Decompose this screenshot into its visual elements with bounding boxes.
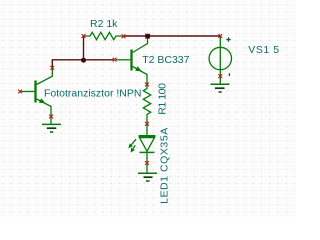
ground under phototransistor: [42, 117, 61, 132]
svg-text:Fototranzisztor !NPN: Fototranzisztor !NPN: [44, 88, 141, 100]
pin VS1 minus to ground: [218, 74, 222, 78]
pin R2 right: [122, 34, 126, 38]
pin T2 base: [113, 58, 117, 62]
svg-text:R1 100: R1 100: [157, 83, 169, 115]
pin VS1 plus: [218, 34, 222, 38]
svg-text:R2 1k: R2 1k: [90, 18, 118, 30]
voltage source VS1: [209, 37, 231, 81]
pin LED cathode to ground: [145, 161, 149, 165]
transistor T2: [116, 36, 148, 84]
ground under LED: [138, 164, 157, 182]
pin T2 emitter to R1: [145, 83, 149, 87]
wire horizontal base net from phototransistor collector corner to T2 base: [52, 60, 113, 68]
wire top horizontal from R2 to VS1: [124, 35, 220, 37]
pin phototransistor collector: [50, 66, 54, 70]
pin marks (red x crosses): [18, 34, 222, 165]
wire vertical left from R2 left pin down to node: [83, 36, 85, 60]
ground under VS1: [211, 80, 230, 92]
phototransistor Q1: [21, 69, 52, 117]
transistor T2 emitter arrow: [135, 66, 142, 71]
svg-text:VS1 5: VS1 5: [248, 44, 279, 56]
node junction dot A: [81, 58, 86, 63]
pin phototransistor emitter to ground: [49, 115, 53, 119]
svg-text:T2 BC337: T2 BC337: [142, 54, 189, 66]
VS1 plus sign: [226, 37, 230, 41]
LED light arrows: [128, 139, 136, 152]
svg-text:LED1 CQX35A: LED1 CQX35A: [159, 127, 171, 204]
pin R2 left: [82, 34, 86, 38]
phototransistor emitter arrow: [39, 98, 46, 103]
VS1 minus mark: [228, 73, 230, 76]
pin T2 collector on node B: [145, 34, 150, 39]
resistor R2: [84, 32, 124, 39]
pin phototransistor base: [18, 90, 22, 94]
resistor R1: [143, 85, 150, 123]
pin R1 to LED: [145, 122, 149, 126]
LED LED1: [139, 124, 156, 163]
node junction dot B: [145, 34, 150, 39]
